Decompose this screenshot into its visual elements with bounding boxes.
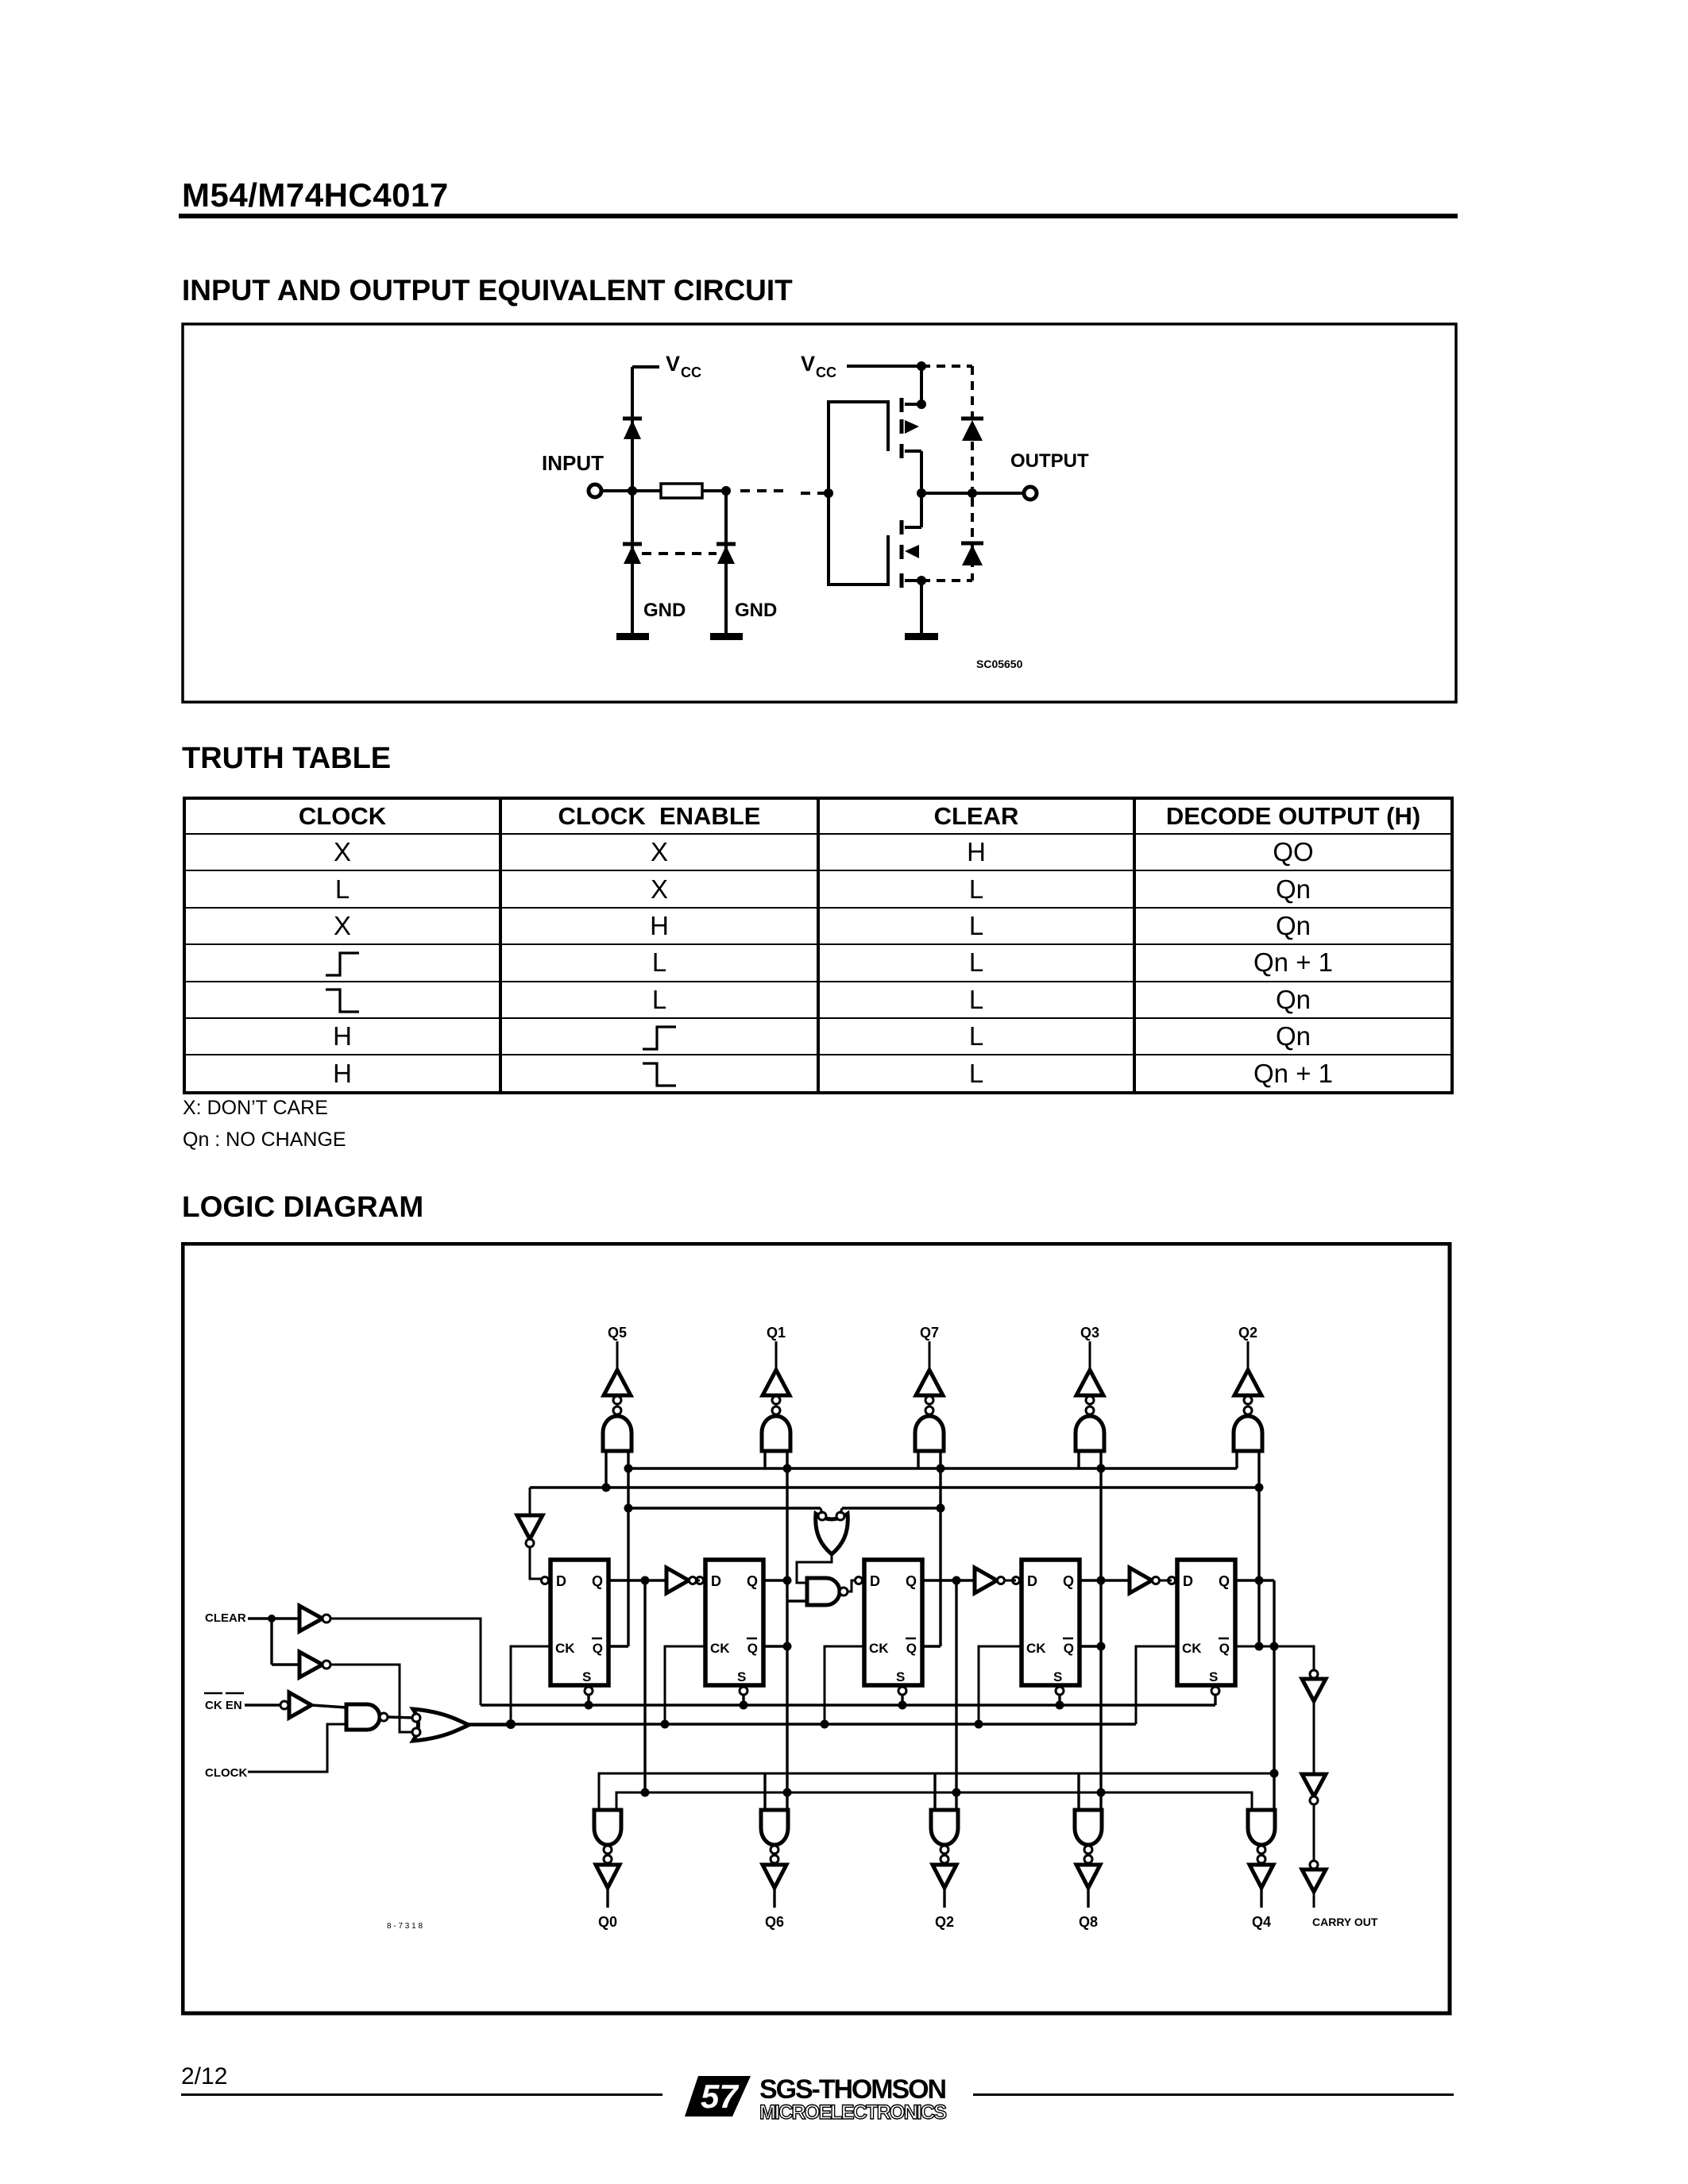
svg-text:OUTPUT: OUTPUT <box>1010 450 1089 472</box>
wire Vcc rail vertical <box>631 367 634 635</box>
svg-text:S: S <box>1053 1669 1062 1684</box>
wire FF5 Q out <box>1235 1579 1274 1581</box>
svg-text:CK: CK <box>555 1641 575 1656</box>
wire FF2 CK to clock bus <box>665 1646 705 1724</box>
flip-flop FF5 <box>1177 1560 1235 1695</box>
svg-text:CARRY OUT: CARRY OUT <box>1312 1916 1378 1928</box>
gate decode NAND Q6 (lower) <box>761 1810 788 1845</box>
wire CLOCK input <box>248 1724 346 1772</box>
flip-flop FF2 <box>705 1560 763 1695</box>
bubbles Q4 <box>1257 1846 1265 1854</box>
svg-text:V: V <box>801 352 815 376</box>
svg-text:CLEAR: CLEAR <box>205 1611 246 1625</box>
buffer clear 2 <box>299 1652 323 1677</box>
wire buffer to FF4 D <box>1005 1580 1016 1582</box>
svg-text:Q: Q <box>1219 1573 1230 1589</box>
svg-text:D: D <box>556 1573 566 1589</box>
wire CLEAR input <box>248 1617 299 1619</box>
wire FF4 CK to clock bus <box>979 1646 1022 1724</box>
node Q3 vertical on bus E <box>1097 1788 1106 1797</box>
gate decode NAND Q7 <box>915 1416 944 1451</box>
svg-text:Q: Q <box>906 1573 917 1589</box>
buffer FF1-FF2 <box>666 1568 689 1593</box>
truth table heading <box>182 742 391 776</box>
buffer FF4-FF5 <box>1130 1568 1152 1593</box>
inverter feedback (bus B to FF1 D) <box>529 1488 531 1514</box>
node Q1 vertical on bus E <box>783 1788 792 1797</box>
diode gnd to output <box>961 543 983 565</box>
wire buffer to FF5 D <box>1160 1580 1172 1582</box>
wire bus D (decode lower 1) <box>599 1773 1274 1810</box>
svg-text:D: D <box>1027 1573 1037 1589</box>
bubbles Q2 <box>941 1846 948 1854</box>
wire label Q1 lead <box>775 1341 778 1372</box>
svg-text:57: 57 <box>701 2078 739 2115</box>
node FF2 Qbar junction <box>783 1642 792 1651</box>
wire carry tail <box>1313 1892 1315 1908</box>
resistor (input series) <box>661 484 702 498</box>
wire output to NMOS drain <box>920 493 923 527</box>
gate NAND FF3 D <box>807 1578 840 1605</box>
wire FF1 Q tap down <box>643 1580 646 1792</box>
wire nor output to clock bus <box>467 1723 511 1726</box>
wire dashed to gate stage <box>740 489 786 492</box>
SGS-THOMSON logo <box>682 2070 952 2125</box>
svg-text:V: V <box>666 352 680 376</box>
svg-text:Q: Q <box>1063 1573 1074 1589</box>
svg-text:CC: CC <box>681 365 701 380</box>
node FF3 tap on bus E <box>952 1788 961 1797</box>
node FF1 S junction <box>585 1701 593 1710</box>
buffer FF3-FF4 <box>975 1568 997 1593</box>
wire FF2 Q to nand input <box>787 1599 807 1602</box>
flip-flop FF4 <box>1022 1560 1080 1695</box>
node clock tap 3 <box>821 1720 829 1729</box>
svg-text:CK: CK <box>1026 1641 1046 1656</box>
diode gnd to node (right) <box>717 544 736 564</box>
wire clear branch to buffer2 <box>272 1663 299 1665</box>
node Q5 leg on bus A <box>624 1464 633 1473</box>
gate electrode bracket <box>829 402 888 585</box>
wire FF5 Q drop <box>1273 1580 1275 1812</box>
inverter carry 1 <box>1310 1670 1318 1678</box>
pin FF4 D input bubble <box>1013 1577 1020 1584</box>
svg-text:CK: CK <box>1182 1641 1202 1656</box>
node FF1 Q junction <box>641 1576 650 1585</box>
svg-text:CK EN: CK EN <box>205 1699 242 1712</box>
svg-text:D: D <box>711 1573 721 1589</box>
wire output line <box>921 492 1024 495</box>
node Q7 leg on bus A <box>937 1464 945 1473</box>
gate OR (0-reset shield) <box>816 1514 848 1554</box>
wire bus B (decode feedback 2) <box>530 1486 1259 1488</box>
node resistor output <box>721 486 731 496</box>
transistor P-channel MOSFET <box>902 398 921 458</box>
wire Q2 gate left leg <box>933 1773 936 1810</box>
page number <box>181 2063 227 2090</box>
node FF5 Q junction <box>1255 1576 1264 1585</box>
wire nand to nor <box>388 1717 415 1718</box>
wire bus C left stub to shield <box>821 1508 822 1514</box>
flip-flop FF3 <box>864 1560 922 1695</box>
gate decode NAND Q4 (lower) <box>1248 1810 1275 1845</box>
gate decode NAND Q1 <box>762 1416 790 1451</box>
pin FF2 D input bubble <box>697 1577 704 1584</box>
inverter carry 3 <box>1310 1861 1318 1869</box>
wire clear2 to gate <box>330 1665 415 1732</box>
wire Vcc to PMOS drain <box>920 366 923 406</box>
ground (right) <box>905 633 938 640</box>
node FF4 Q junction <box>1097 1576 1106 1585</box>
wire dashed diode chain upper <box>971 366 974 488</box>
wire FF3 Q out <box>922 1579 975 1581</box>
wire Q1 gate right leg (long) <box>786 1451 788 1810</box>
svg-text:S: S <box>737 1669 746 1684</box>
wire cken to nand <box>311 1705 346 1707</box>
diode gnd to input (left) <box>623 544 642 564</box>
node bus C end <box>937 1504 945 1513</box>
node output junction <box>917 488 926 498</box>
buffer output Q7 <box>916 1370 943 1395</box>
wire Q8 tail <box>1087 1888 1089 1908</box>
wire Q7 gate right leg (to FF3 Qbar) <box>939 1451 941 1646</box>
node clock tap 2 <box>661 1720 670 1729</box>
svg-text:Q: Q <box>1064 1641 1074 1656</box>
svg-text:Q1: Q1 <box>767 1325 786 1341</box>
wire Q3 gate right leg (long) <box>1099 1451 1102 1810</box>
wire FF2 Q out <box>763 1579 787 1581</box>
wire FF2 Qbar stub <box>763 1645 787 1647</box>
gate decode NAND Q2 (lower) <box>931 1810 958 1845</box>
svg-text:S: S <box>896 1669 905 1684</box>
wire FF2 S to set bus <box>742 1695 744 1705</box>
wire bus A (decode feedback 1) <box>628 1467 1237 1469</box>
wire FF1 Qbar to vertical <box>608 1645 628 1647</box>
node FF2 Q junction <box>783 1576 792 1585</box>
flip-flop FF1 <box>550 1560 608 1695</box>
inverter output Q0 <box>596 1865 620 1888</box>
header rule <box>179 214 1458 218</box>
wire dashed diode to NMOS source <box>921 579 972 582</box>
wire bus C right segment <box>842 1507 941 1509</box>
svg-text:CLOCK: CLOCK <box>205 1766 247 1780</box>
wire CKEN input <box>245 1704 280 1706</box>
svg-text:GND: GND <box>643 600 686 621</box>
svg-text:Q6: Q6 <box>765 1914 784 1930</box>
node gate input <box>824 488 833 498</box>
wire set bus <box>481 1704 1215 1706</box>
inverter output Q8 <box>1076 1865 1100 1888</box>
wire FF1 D feed <box>530 1547 542 1579</box>
svg-text:Q: Q <box>593 1641 603 1656</box>
node FF2 S junction <box>740 1701 748 1710</box>
wire FF4 Q out <box>1080 1579 1130 1581</box>
wire label Q7 lead <box>929 1341 931 1372</box>
wire FF5 Qbar to carry <box>1235 1646 1314 1671</box>
node Q2 leg on bus B <box>1255 1484 1264 1492</box>
wire Q5 gate right leg (to FF1 Qbar) <box>627 1451 629 1646</box>
wire FF4 Qbar stub <box>1080 1645 1101 1647</box>
ground (left 2) <box>710 633 743 640</box>
svg-text:Q: Q <box>747 1573 758 1589</box>
node clock bus start <box>506 1719 516 1729</box>
node clock tap 4 <box>975 1720 983 1729</box>
gate decode NAND Q2 <box>1234 1416 1262 1451</box>
wire Vcc rail right <box>847 365 921 368</box>
inverter output Q4 <box>1250 1865 1273 1888</box>
wire bus C right stub to shield <box>840 1508 842 1514</box>
CK EN overline <box>204 1692 222 1695</box>
buffer output Q3 <box>1076 1370 1103 1395</box>
svg-text:Q8: Q8 <box>1079 1914 1098 1930</box>
inverter output Q6 <box>763 1865 786 1888</box>
wire FF5 CK to clock bus <box>1136 1646 1177 1724</box>
node FF5 Q drop on Qbar wire <box>1270 1642 1279 1651</box>
svg-text:CK: CK <box>869 1641 889 1656</box>
wire Q1 gate left leg <box>763 1451 766 1468</box>
buffer output Q2 <box>1234 1370 1261 1395</box>
gate decode NAND Q0 (lower) <box>594 1810 621 1845</box>
node diode tap on output <box>968 488 977 498</box>
svg-text:CC: CC <box>816 365 836 380</box>
circuit frame box <box>183 324 1456 702</box>
wire nand to FF3 D <box>848 1580 856 1592</box>
node FF1 tap on bus E <box>641 1788 650 1797</box>
gate clock NOR <box>413 1709 469 1741</box>
node FF5 Qbar junction <box>1255 1642 1264 1651</box>
footer rule left <box>181 2093 662 2096</box>
wire dashed diode chain lower <box>971 498 974 581</box>
wire buffer to FF2 D <box>697 1580 700 1582</box>
gate decode NAND Q5 <box>603 1416 632 1451</box>
wire bus C left segment <box>628 1507 821 1509</box>
buffer output Q5 <box>604 1370 631 1395</box>
wire PMOS source to output <box>920 451 923 493</box>
gate decode NAND Q3 <box>1076 1416 1104 1451</box>
page title <box>182 176 449 214</box>
wire Q7 gate left leg <box>917 1451 919 1468</box>
wire dashed Vcc to diode chain <box>921 365 972 368</box>
node input junction <box>628 486 637 496</box>
svg-text:Q: Q <box>747 1641 758 1656</box>
node PMOS drain <box>917 399 926 409</box>
bubbles Q6 <box>771 1846 778 1854</box>
svg-text:SC05650: SC05650 <box>976 658 1023 670</box>
buffer output Q1 <box>763 1370 790 1395</box>
svg-text:Q0: Q0 <box>598 1914 617 1930</box>
logic diagram frame box <box>183 1244 1450 2013</box>
ground (left 1) <box>616 633 649 640</box>
svg-text:S: S <box>1209 1669 1218 1684</box>
node Vcc junction <box>917 361 926 371</box>
wire bus E (decode lower 2) <box>616 1792 1252 1810</box>
logic diagram heading <box>182 1190 423 1224</box>
INPUT terminal <box>589 484 601 497</box>
wire Q3 gate left leg <box>1077 1451 1080 1468</box>
svg-text:MICROELECTRONICS: MICROELECTRONICS <box>759 2101 947 2124</box>
node Q1 leg on bus A <box>783 1464 792 1473</box>
OUTPUT terminal <box>1024 487 1037 500</box>
node Q5 leg on bus B <box>602 1484 611 1492</box>
wire FF1 Q out <box>608 1579 666 1581</box>
node FF3 S junction <box>898 1701 907 1710</box>
wire Q5 gate left leg <box>605 1451 607 1488</box>
wire clear1 to set bus <box>330 1619 481 1705</box>
inverter output Q2 <box>933 1865 956 1888</box>
wire clock bus <box>467 1723 1136 1725</box>
node bus C start <box>624 1504 633 1513</box>
svg-text:Q7: Q7 <box>920 1325 939 1341</box>
wire dashed into gate node <box>801 492 826 495</box>
wire Q0 tail <box>606 1888 608 1908</box>
pin FF5 D input bubble <box>1168 1577 1176 1584</box>
svg-text:D: D <box>870 1573 880 1589</box>
svg-text:Q5: Q5 <box>608 1325 627 1341</box>
svg-text:Q2: Q2 <box>1238 1325 1257 1341</box>
wire Vcc corner <box>632 365 659 369</box>
bubbles Q8 <box>1084 1846 1092 1854</box>
svg-text:CK: CK <box>710 1641 730 1656</box>
wire Q2 gate right leg (to FF5) <box>1257 1451 1260 1646</box>
svg-text:8 - 7 3 1 8: 8 - 7 3 1 8 <box>387 1922 423 1931</box>
wire FF4 S to set bus <box>1058 1695 1060 1705</box>
wire carry link 1 <box>1313 1701 1315 1774</box>
svg-text:GND: GND <box>735 600 777 621</box>
node FF4 Qbar junction <box>1097 1642 1106 1651</box>
pin FF1 D input bubble <box>542 1577 549 1584</box>
svg-text:Q: Q <box>906 1641 917 1656</box>
footer rule right <box>973 2093 1454 2096</box>
wire dashed diode link <box>642 552 717 555</box>
svg-text:Q4: Q4 <box>1252 1914 1271 1930</box>
svg-text:S: S <box>582 1669 591 1684</box>
svg-text:Q2: Q2 <box>935 1914 954 1930</box>
wire shield output to nand <box>797 1553 832 1583</box>
wire NMOS source to ground <box>920 581 923 633</box>
svg-text:D: D <box>1183 1573 1193 1589</box>
wire resistor to node <box>702 489 726 492</box>
section heading <box>182 274 793 307</box>
node FF3 Q junction <box>952 1576 961 1585</box>
svg-text:Q3: Q3 <box>1080 1325 1099 1341</box>
wire label Q5 lead <box>616 1341 619 1372</box>
node FF4 S junction <box>1056 1701 1064 1710</box>
pin FF3 D input bubble <box>856 1577 863 1584</box>
truth table <box>183 797 1454 1094</box>
node Q3 leg on bus A <box>1097 1464 1106 1473</box>
svg-text:Q: Q <box>592 1573 603 1589</box>
wire clear branch down <box>270 1619 272 1665</box>
inverter carry 2 <box>1302 1774 1326 1796</box>
buffer clock-enable <box>280 1701 288 1709</box>
wire carry link 2 <box>1313 1804 1315 1861</box>
gate clock NAND <box>346 1704 380 1730</box>
wire Q6 gate left leg <box>763 1773 766 1810</box>
wire FF3 CK to clock bus <box>825 1646 864 1724</box>
wire FF3 Qbar stub <box>922 1645 941 1647</box>
wire input to resistor <box>601 489 661 492</box>
wire label Q3 lead <box>1089 1341 1091 1372</box>
wire Q2 gate left leg <box>1235 1451 1238 1468</box>
svg-text:INPUT: INPUT <box>542 451 604 475</box>
wire Q8 gate left leg <box>1077 1773 1080 1810</box>
wire protection branch vertical <box>724 491 728 635</box>
svg-text:SGS-THOMSON: SGS-THOMSON <box>759 2074 947 2105</box>
wire label Q2 lead <box>1247 1341 1250 1372</box>
diode input to Vcc <box>623 419 642 439</box>
node NMOS source <box>917 576 926 585</box>
node bus D end <box>1270 1769 1279 1778</box>
wire FF1 S to set bus <box>587 1695 589 1705</box>
transistor N-channel MOSFET <box>902 520 921 588</box>
gate decode NAND Q8 (lower) <box>1075 1810 1102 1845</box>
wire FF5 S to set bus <box>1214 1695 1216 1705</box>
svg-text:Q: Q <box>1219 1641 1230 1656</box>
wire FF3 Q tap down <box>955 1580 957 1810</box>
bubbles Q0 <box>604 1846 612 1854</box>
node CLEAR branch <box>268 1615 276 1623</box>
table notes <box>183 1097 328 1120</box>
wire FF3 S to set bus <box>901 1695 903 1705</box>
wire Q6 tail <box>773 1888 775 1908</box>
wire FF1 CK to clock bus <box>511 1646 550 1724</box>
wire Q2 tail <box>943 1888 945 1908</box>
buffer clear 1 <box>299 1606 323 1631</box>
wire Q4 tail <box>1260 1888 1262 1908</box>
diode output to Vcc <box>961 419 983 441</box>
